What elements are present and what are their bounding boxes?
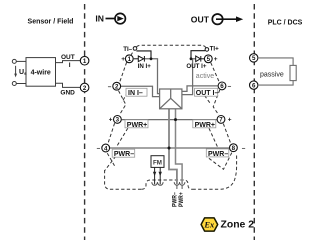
svg-text:I: I (69, 62, 71, 69)
resistor load R1 (290, 65, 296, 80)
wire terminal5 to resistor (258, 58, 293, 66)
boundary terminal 5 (250, 54, 258, 63)
bus socket FM left (152, 182, 158, 185)
svg-text:PLC / DCS: PLC / DCS (268, 20, 303, 27)
svg-text:+: + (109, 117, 113, 124)
label plate IN I- (126, 88, 147, 97)
stub below PWR+ socket (181, 185, 183, 189)
terminal 5 (204, 55, 212, 63)
wire box GND to terminal 2 (56, 83, 81, 87)
svg-text:4-wire: 4-wire (31, 69, 51, 76)
sensor terminal bottom (12, 82, 16, 86)
diode D1 (IN I+) (134, 56, 145, 62)
outline T6 to T7 zigzag (213, 90, 220, 115)
wire PWR+ vertical from amp (176, 109, 183, 185)
zone boundary dashed line right (OUT | PLC/DCS) (253, 4, 255, 240)
4-wire box (26, 58, 56, 87)
svg-text:6: 6 (220, 83, 224, 90)
terminal 1 (125, 55, 133, 63)
wire IN I- T2 to amp (121, 86, 160, 96)
terminal 3 (114, 116, 122, 124)
FM pin left with arrow (153, 167, 156, 184)
svg-text:5: 5 (252, 55, 256, 62)
outline T1 to T2 (120, 62, 127, 82)
svg-text:PWR–: PWR– (172, 192, 178, 207)
FM pin right with arrow (159, 167, 162, 184)
svg-text:–: – (242, 145, 246, 152)
svg-text:PWR–: PWR– (114, 151, 134, 158)
amp / isolator block U1 (160, 89, 182, 109)
sensor terminal top (12, 59, 16, 63)
svg-text:8: 8 (232, 145, 236, 152)
label plate PWR+ left (125, 120, 148, 129)
wire PWR- vertical from amp (169, 109, 177, 185)
label plate PWR- right (206, 149, 229, 158)
label plate OUT I- (195, 88, 219, 97)
outline T3 to T4 (108, 123, 115, 144)
svg-text:+: + (214, 56, 218, 63)
svg-text:7: 7 (219, 117, 223, 124)
outline T5 to T6 (211, 63, 220, 82)
boundary terminal 6 (250, 81, 258, 90)
wire sensor bottom to box (16, 83, 26, 85)
svg-text:Zone 2: Zone 2 (221, 219, 255, 230)
svg-text:–: – (97, 145, 101, 152)
diode D2 (OUT I+) (196, 56, 205, 62)
wire sensor top to box (16, 60, 26, 62)
outline stub near OUT I- (205, 96, 211, 105)
bus socket PWR+ (179, 182, 184, 185)
svg-text:–: – (108, 83, 112, 90)
outline dash T1 to TI- (131, 50, 134, 55)
svg-text:OUT I+: OUT I+ (186, 63, 206, 70)
Ex hexagon symbol (201, 218, 218, 231)
svg-text:6: 6 (252, 82, 256, 89)
svg-text:OUT I–: OUT I– (196, 90, 219, 97)
bus socket PWR- (174, 182, 179, 185)
wire PWR+ row (122, 119, 217, 121)
svg-text:GND: GND (60, 90, 75, 97)
Us voltage arrow (15, 66, 17, 75)
outline bottom notch (142, 180, 193, 189)
bus socket FM right (158, 182, 164, 185)
svg-text:OUT: OUT (191, 14, 210, 24)
outline X below T4 (105, 153, 116, 170)
svg-text:FM: FM (153, 159, 162, 166)
terminal 4 (102, 144, 110, 152)
zone boundary dashed line left (Sensor/Field | IN) (84, 4, 86, 240)
svg-text:+: + (228, 117, 232, 124)
FM box (151, 156, 164, 168)
wire TI- to IN I+ junction (136, 51, 151, 59)
wire IN I+ diode to amp (144, 59, 159, 94)
OUT icon (circle with exiting arrow) (212, 14, 243, 24)
svg-text:IN I+: IN I+ (138, 63, 152, 70)
wire amp to OUT I+ diode (182, 59, 197, 95)
svg-text:2: 2 (115, 84, 119, 91)
svg-text:4: 4 (104, 145, 108, 152)
terminal 8 (230, 144, 238, 152)
svg-text:Us: Us (19, 69, 27, 76)
outline T7 to T8 (223, 124, 230, 143)
svg-text:IN: IN (95, 14, 104, 24)
junction dot TI+ (190, 57, 193, 60)
svg-text:1: 1 (128, 56, 132, 63)
svg-text:TI+: TI+ (210, 46, 219, 53)
wire PWR- row (110, 147, 229, 149)
IN icon (arrow into circle) (106, 13, 126, 23)
svg-text:5: 5 (207, 56, 211, 63)
svg-text:1: 1 (83, 58, 87, 65)
terminal 6 (218, 82, 226, 90)
svg-text:–: – (228, 83, 232, 90)
terminal 7 (217, 116, 225, 124)
outline stub PWR boxes right (209, 128, 218, 148)
svg-text:active: active (196, 73, 214, 80)
outline stub PWR boxes left (117, 128, 128, 147)
outline left bottom corner (105, 170, 142, 189)
outline bottom right edge (193, 155, 237, 189)
svg-text:OUT: OUT (61, 54, 75, 61)
stub below PWR- socket (176, 185, 178, 189)
outline T2 to T3 zigzag (119, 91, 126, 115)
svg-text:passive: passive (260, 71, 284, 78)
wire TI+ to OUT I+ junction (191, 51, 205, 59)
svg-text:IN I–: IN I– (128, 90, 143, 97)
outline top arc TI- to TI+ (137, 45, 206, 47)
svg-text:Ex: Ex (203, 220, 215, 230)
svg-text:PWR+: PWR+ (127, 122, 147, 129)
terminal 2 (113, 82, 121, 90)
svg-text:PWR–: PWR– (208, 151, 228, 158)
outline stub near IN I- (122, 93, 128, 103)
boundary terminal 2 (80, 83, 89, 92)
svg-text:+: + (121, 56, 125, 63)
svg-text:Sensor / Field: Sensor / Field (28, 18, 74, 25)
outline V below T8 (207, 153, 232, 170)
junction dot PWR+ (174, 118, 177, 121)
junction dot TI- (150, 57, 153, 60)
svg-text:PWR+: PWR+ (195, 122, 215, 129)
TI+ test socket (205, 48, 209, 52)
svg-text:TI–: TI– (123, 46, 132, 53)
wire amp to OUT I- T6 (182, 86, 218, 92)
TI- test socket (133, 47, 137, 51)
svg-text:2: 2 (83, 85, 87, 92)
wire box OUT to terminal 1 (56, 61, 81, 63)
label plate PWR- left (112, 149, 135, 158)
svg-text:3: 3 (116, 117, 120, 124)
junction dot PWR- (168, 147, 171, 150)
wire resistor to terminal6 (258, 81, 293, 86)
svg-text:PWR+: PWR+ (179, 192, 185, 207)
label plate PWR+ right (193, 120, 216, 129)
boundary terminal 1 (80, 56, 89, 65)
